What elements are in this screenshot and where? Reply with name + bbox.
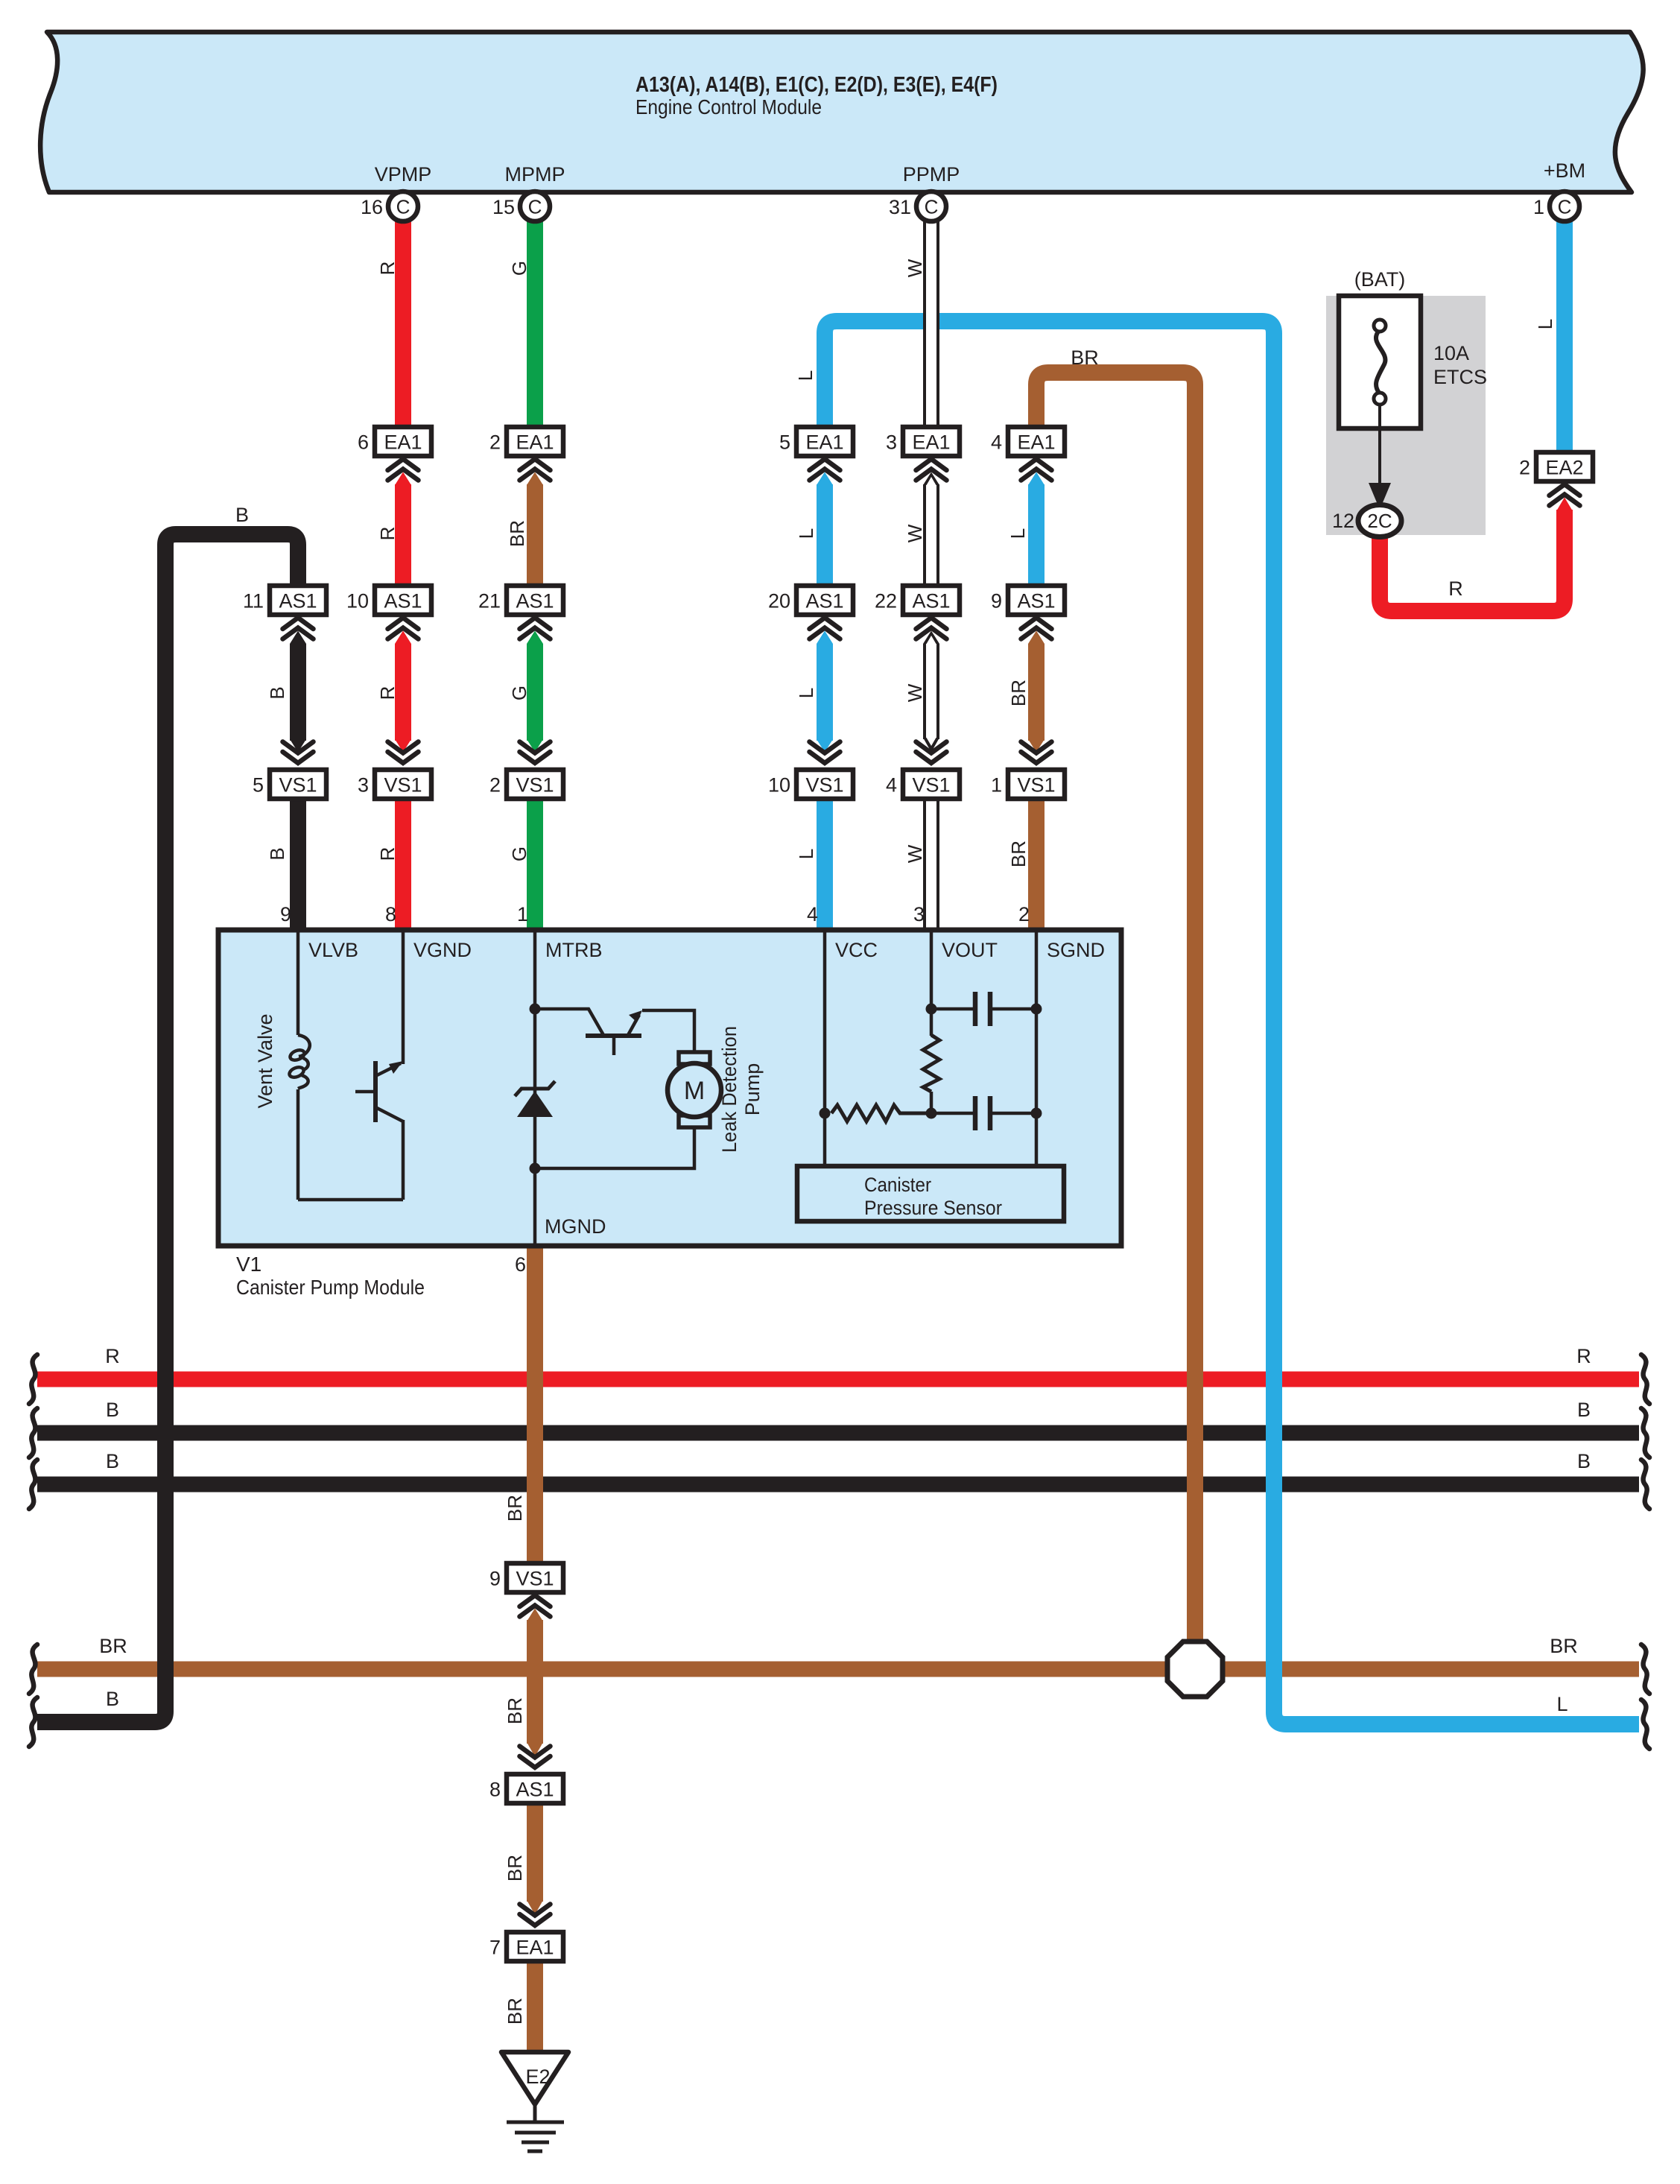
bus wire B upper (horizontal) [37,1425,1639,1441]
connector AS1 pin 22 [903,586,960,615]
svg-text:G: G [508,261,530,276]
svg-text:PPMP: PPMP [903,163,960,186]
resistor R2 (horizontal on VCC) [831,1105,931,1121]
wire MTRB internal [533,930,537,1013]
svg-text:8: 8 [385,903,396,925]
svg-text:VS1: VS1 [516,1568,554,1590]
svg-text:9: 9 [280,903,291,925]
wire R segment EA1-6 to AS1-10 [395,484,411,587]
svg-text:VS1: VS1 [912,774,950,797]
connector AS1 pin 21 [507,586,563,615]
svg-text:V1: V1 [236,1253,261,1276]
svg-text:B: B [266,847,288,860]
svg-text:W: W [904,844,926,863]
fuse block ground shading [1326,296,1486,535]
bus BR right break symbol [1641,1645,1649,1694]
svg-text:Vent Valve: Vent Valve [254,1013,276,1108]
svg-text:2C: 2C [1367,510,1392,532]
svg-text:2: 2 [1519,457,1530,479]
svg-text:VGND: VGND [413,939,472,961]
svg-text:20: 20 [768,590,790,613]
svg-text:MPMP: MPMP [505,163,565,186]
wire BR segment AS1-9 to VS1-1 [1028,644,1045,741]
resistor R1 (vertical on VOUT) [923,1035,939,1092]
svg-text:BR: BR [504,1998,526,2025]
wire W segment AS1-22 to VS1-4 [923,644,939,739]
wire BR segment module pin 6 to VS1-9 [527,1241,543,1565]
connector EA2 pin 2 [1536,452,1593,481]
bus wire R (horizontal) [37,1372,1639,1387]
splice junction octagon on BR bus [1167,1642,1223,1697]
svg-text:W: W [904,524,926,542]
connector VS1 pin 5 [270,770,326,799]
svg-text:Engine Control Module: Engine Control Module [635,95,822,118]
bus L bottom-right break symbol [1641,1700,1649,1749]
connector VS1 pin 9 [507,1563,563,1592]
svg-text:EA1: EA1 [384,431,422,454]
wire node to transistor Q2 [535,1009,603,1035]
svg-text:VS1: VS1 [1017,774,1055,797]
connector VS1 pin 3 [375,770,431,799]
svg-text:2: 2 [1018,903,1030,925]
svg-text:EA1: EA1 [912,431,950,454]
svg-text:E2: E2 [525,2066,550,2088]
svg-text:6: 6 [515,1253,526,1276]
wire L segment AS1-20 to VS1-10 [817,644,833,741]
svg-text:BR: BR [1007,841,1030,867]
svg-text:L: L [794,370,817,381]
svg-text:6: 6 [358,431,369,454]
svg-text:VLVB: VLVB [308,939,358,961]
svg-text:AS1: AS1 [1017,590,1055,613]
svg-text:Leak Detection: Leak Detection [718,1026,741,1153]
svg-text:Pump: Pump [741,1063,764,1116]
wire VOUT internal lower [930,1092,933,1113]
wire vent valve to bottom [297,1089,300,1200]
svg-text:9: 9 [991,590,1002,613]
svg-text:EA2: EA2 [1545,457,1583,479]
wire L segment ECM +BM to EA2 [1556,220,1573,454]
svg-text:C: C [528,196,542,218]
svg-text:EA1: EA1 [805,431,843,454]
bus B upper right break symbol [1641,1408,1649,1457]
svg-text:L: L [795,688,817,698]
canister pressure sensor box [797,1166,1064,1221]
bus B lower left break symbol [29,1460,37,1509]
wire R segment VS1-3 to module pin 8 [395,798,411,931]
wire B segment AS1-11 to VS1-5 [290,644,306,741]
svg-text:B: B [1577,1399,1591,1421]
svg-text:ETCS: ETCS [1433,366,1487,388]
svg-text:L: L [795,849,817,859]
svg-text:2: 2 [489,431,501,454]
connector AS1 pin 11 [270,586,326,615]
svg-text:Canister Pump Module: Canister Pump Module [236,1276,425,1299]
svg-text:B: B [266,686,288,699]
wire R segment AS1-10 to VS1-3 [395,644,411,741]
svg-text:B: B [235,504,249,526]
svg-text:VPMP: VPMP [375,163,432,186]
canister pump module box V1 [218,930,1121,1246]
wire bottom horizontal vent valve loop [298,1198,403,1202]
svg-text:R: R [1576,1345,1591,1367]
svg-text:BR: BR [504,1697,526,1724]
wire up to transistor Q1 [402,1120,405,1200]
svg-text:VS1: VS1 [516,774,554,797]
svg-text:4: 4 [807,903,818,925]
svg-text:Pressure Sensor: Pressure Sensor [864,1197,1002,1219]
capacitor C2 (lower) [931,1112,975,1115]
svg-text:BR: BR [504,1495,526,1522]
svg-text:A13(A), A14(B), E1(C), E2(D),: A13(A), A14(B), E1(C), E2(D), E3(E), E4(… [635,73,998,97]
fuse case 10A ETCS [1339,296,1421,428]
svg-text:R: R [376,686,399,700]
svg-text:AS1: AS1 [279,590,317,613]
svg-text:C: C [1558,196,1572,218]
fuse element [1374,320,1386,332]
engine control module box (ECM) [40,32,1643,192]
wire SGND internal [1035,930,1039,1166]
wire BR hook (EA1 pin 4 over to splice) [1036,373,1195,1650]
wire W segment VS1-4 to module pin 3 [923,798,939,931]
wire VGND internal [402,930,405,1064]
connector EA1 pin 3 [903,427,960,456]
node VCC lower [820,1108,831,1119]
bus wire B lower (horizontal) [37,1477,1639,1493]
svg-text:W: W [904,259,926,277]
svg-text:16: 16 [361,196,383,218]
svg-text:10A: 10A [1433,342,1469,364]
connector VS1 pin 4 [903,770,960,799]
vent valve coil [298,1035,310,1057]
svg-text:L: L [1007,528,1029,539]
bus B bottom-left break symbol [29,1697,37,1747]
wire BR segment EA1-7 to ground E2 [527,1961,543,2055]
ECM pin 16 connector C circle [388,192,418,221]
svg-text:AS1: AS1 [805,590,843,613]
connector EA1 pin 2 [507,427,563,456]
wire MGND internal [533,1168,537,1246]
wire W segment ECM PPMP to EA1-3 [923,220,939,428]
svg-text:2: 2 [489,774,501,797]
connector EA1 pin 6 [375,427,431,456]
ECM pin 1 connector C circle [1550,192,1579,221]
ground E2 [501,2052,568,2104]
svg-text:VS1: VS1 [805,774,843,797]
connector AS1 pin 8 [507,1774,563,1803]
connector AS1 pin 10 [375,586,431,615]
svg-text:11: 11 [243,590,264,613]
svg-text:22: 22 [875,590,897,613]
svg-text:EA1: EA1 [516,1937,554,1959]
wire Q2 collector to motor [642,1010,694,1054]
wire L segment EA1-4 to AS1-9 [1028,484,1045,587]
svg-text:Canister: Canister [864,1174,931,1196]
svg-text:EA1: EA1 [1017,431,1055,454]
svg-text:+BM: +BM [1544,159,1585,182]
node SGND lower [1031,1108,1042,1119]
svg-text:AS1: AS1 [516,1779,554,1801]
svg-text:BR: BR [1550,1635,1578,1657]
svg-text:7: 7 [489,1937,501,1959]
svg-text:R: R [105,1345,120,1367]
svg-text:VCC: VCC [835,939,878,961]
node MGND bottom [530,1163,541,1174]
svg-text:3: 3 [886,431,897,454]
svg-text:10: 10 [768,774,790,797]
node SGND upper [1031,1004,1042,1015]
svg-text:MGND: MGND [545,1215,606,1238]
svg-text:1: 1 [991,774,1002,797]
svg-text:1: 1 [517,903,528,925]
svg-text:BR: BR [506,520,528,547]
svg-text:R: R [376,262,399,276]
wire L main loop (EA1 pin 5 over to right side and bottom L bus) [825,321,1639,1724]
wire BR segment EA1-2 to AS1-21 [527,484,543,587]
svg-text:C: C [925,196,939,218]
bus R left break symbol [29,1355,37,1404]
svg-text:10: 10 [346,590,369,613]
connector EA1 pin 5 [796,427,853,456]
transistor Q1 (vent valve driver) [373,1061,378,1122]
zener diode ZD [517,1091,553,1117]
svg-text:B: B [1577,1450,1591,1472]
bus BR left break symbol [29,1645,37,1694]
wire VOUT internal upper [930,930,933,1036]
svg-text:BR: BR [99,1635,127,1657]
connector EA1 pin 7 [507,1932,563,1961]
svg-text:9: 9 [489,1568,501,1590]
svg-text:B: B [106,1450,119,1472]
svg-text:R: R [376,527,399,541]
capacitor C1 (upper) [931,1007,975,1011]
svg-text:(BAT): (BAT) [1354,268,1406,291]
wire G segment AS1-21 to VS1-2 [527,644,543,741]
svg-text:MTRB: MTRB [545,939,603,961]
svg-text:G: G [508,686,530,700]
svg-text:AS1: AS1 [516,590,554,613]
svg-text:1: 1 [1533,196,1544,218]
svg-text:M: M [684,1077,705,1105]
svg-text:AS1: AS1 [912,590,950,613]
svg-text:B: B [106,1688,119,1710]
svg-text:BR: BR [1007,680,1030,706]
svg-text:L: L [1556,1693,1568,1715]
wire G segment VS1-2 to module pin 1 [527,798,543,931]
ECM pin 15 connector C circle [520,192,550,221]
svg-text:4: 4 [886,774,897,797]
wire L segment EA1-5 to AS1-20 [817,484,833,587]
wire R segment EA2 to fuse 2C [1380,510,1565,611]
node VOUT lower [926,1108,937,1119]
wire VLVB internal [297,930,300,1035]
svg-text:SGND: SGND [1047,939,1105,961]
transistor Q2 (pump motor driver) [586,1034,641,1038]
svg-text:L: L [1534,319,1556,329]
wire zener branch [533,1009,537,1168]
wire VCC internal [823,930,827,1166]
wire motor to bottom node [535,1127,694,1168]
connector VS1 pin 1 [1008,770,1065,799]
wire R segment ECM VPMP to EA1-6 [395,220,411,428]
svg-text:21: 21 [478,590,501,613]
bus B lower right break symbol [1641,1460,1649,1509]
svg-text:AS1: AS1 [384,590,422,613]
fuse output arrow [1378,405,1381,486]
wire B left loop (AS1 pin 11 to bottom-left B bus) [37,534,298,1722]
svg-text:3: 3 [913,903,925,925]
svg-text:G: G [508,846,530,861]
wire B segment VS1-5 to module pin 9 [290,798,306,931]
ECM pin 31 connector C circle [916,192,946,221]
wire BR segment AS1-8 to EA1-7 [527,1802,543,1902]
pump motor M [679,1052,710,1064]
node VOUT upper [926,1004,937,1015]
svg-text:8: 8 [489,1779,501,1801]
bus B upper left break symbol [29,1408,37,1457]
svg-text:31: 31 [889,196,911,218]
wire G segment ECM MPMP to EA1-2 [527,220,543,428]
svg-text:C: C [396,196,411,218]
svg-text:BR: BR [1071,346,1099,369]
bus wire BR (horizontal) [37,1662,1639,1677]
svg-text:R: R [1448,577,1463,600]
svg-text:VOUT: VOUT [942,939,998,961]
svg-text:5: 5 [779,431,790,454]
svg-text:VS1: VS1 [279,774,317,797]
svg-text:EA1: EA1 [516,431,554,454]
svg-text:L: L [795,528,817,539]
svg-text:B: B [106,1399,119,1421]
svg-text:5: 5 [253,774,264,797]
connector VS1 pin 2 [507,770,563,799]
svg-text:12: 12 [1332,510,1354,532]
svg-text:VS1: VS1 [384,774,422,797]
wire BR segment VS1-1 to module pin 2 [1028,798,1045,931]
connector EA1 pin 4 [1008,427,1065,456]
connector AS1 pin 9 [1008,586,1065,615]
bus R right break symbol [1641,1355,1649,1404]
svg-text:R: R [376,847,399,861]
connector AS1 pin 20 [796,586,853,615]
svg-text:3: 3 [358,774,369,797]
svg-text:BR: BR [504,1855,526,1881]
wire L segment VS1-10 to module pin 4 [817,798,833,931]
node MTRB top [530,1004,541,1015]
wire W segment EA1-3 to AS1-22 [923,484,939,587]
svg-text:4: 4 [991,431,1002,454]
svg-text:W: W [904,683,926,702]
connector 2C pin 12 [1358,505,1401,537]
svg-text:15: 15 [492,196,515,218]
connector VS1 pin 10 [796,770,853,799]
wire BR segment VS1-9 to AS1-8 [527,1620,543,1744]
label Leak Detection Pump [718,1026,764,1153]
